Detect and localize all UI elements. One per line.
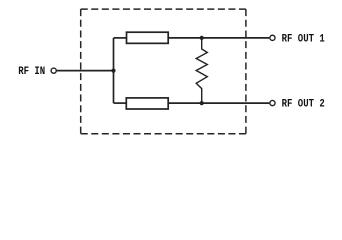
node input junction (111, 69, 115, 73)
resistor R1 (top, box style) (127, 32, 169, 43)
wire input (57, 70, 114, 72)
wire to top resistor (114, 37, 127, 39)
node top junction (200, 36, 204, 40)
wire top output (168, 37, 269, 39)
resistor R3 (bridge, zigzag) (196, 38, 207, 103)
svg-text:RF OUT 1: RF OUT 1 (282, 34, 326, 46)
resistor R2 (bottom, box style) (126, 98, 168, 109)
terminal RF OUT 1 (270, 35, 275, 40)
terminal RF OUT 2 (270, 100, 275, 105)
wire vertical split (113, 38, 115, 103)
svg-text:RF IN: RF IN (18, 66, 45, 78)
node bottom junction (200, 101, 204, 105)
wire bottom output (168, 102, 269, 104)
svg-text:RF OUT 2: RF OUT 2 (282, 99, 325, 111)
wire to bottom resistor (114, 102, 127, 104)
dashed enclosure box (81, 9, 246, 134)
terminal RF IN (51, 68, 56, 73)
